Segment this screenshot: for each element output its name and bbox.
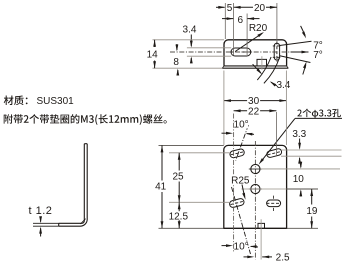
side view: bend tick <box>80 219 85 224</box>
dimension 20: dimension line with arrows <box>234 6 277 8</box>
dimension 22: right extension line <box>275 112 277 156</box>
dimension 30: dimension line <box>224 100 287 102</box>
dimension 5: outside arrow and line <box>216 6 225 8</box>
svg-text:19: 19 <box>306 206 318 217</box>
svg-text:10°: 10° <box>234 242 249 253</box>
label R20 <box>249 23 268 32</box>
front view: 10deg slanted line upper (through top-left slot) <box>236 125 249 161</box>
dimension 6: extension line at slot right cap <box>246 14 248 56</box>
dimension 19: bottom extension line right <box>287 227 318 229</box>
top view: swing arc outer <box>264 57 280 83</box>
dimension 6: outside arrows <box>222 18 233 20</box>
label 2x phi3.3 holes text (CJK) <box>297 110 301 117</box>
top view: horizontal slot center dashes <box>231 51 252 53</box>
top view: bracket plate outline (rounded top corners) <box>224 40 287 66</box>
label 14 <box>146 49 158 58</box>
top view: left end tick of flange <box>222 66 224 68</box>
top view: right end tick of flange <box>287 66 289 68</box>
front view: top-left arc slot <box>230 149 244 158</box>
front view: top-right arc slot <box>267 149 282 158</box>
dimension 3.4: slot width extension lines <box>187 47 231 49</box>
front view: bottom-left arc slot <box>230 199 244 208</box>
svg-text:8: 8 <box>173 57 179 68</box>
dimension 3.3: slot edge extension lines <box>281 149 342 151</box>
svg-text:3.4: 3.4 <box>183 24 197 35</box>
side view: L-profile inner contour <box>59 144 85 224</box>
dimension 3.4: outside arrows <box>190 35 192 47</box>
dimension 12.5: dimension line <box>178 202 180 228</box>
dimension 8: outside arrows at center line and bottom <box>176 44 178 50</box>
dimension 10: upper hole extension line <box>261 168 341 170</box>
label 10deg lower <box>235 242 248 251</box>
svg-text:5: 5 <box>227 3 233 14</box>
svg-text:10: 10 <box>293 174 305 185</box>
dimension 41: dimension line <box>161 145 163 180</box>
dimension t1.2: extension lines <box>33 222 59 224</box>
svg-text:10°: 10° <box>234 120 249 131</box>
dimension 10deg lower: arrow <box>222 245 231 247</box>
front view: tab center line extension (for 2.5 dim) <box>260 219 262 259</box>
leader of 2x phi3.3 holes: horizontal underline <box>295 117 342 119</box>
dimension 22: dimension line <box>234 110 277 112</box>
front view: right horizontal slot <box>267 200 281 207</box>
label 12.5 <box>168 211 189 220</box>
top view: upper arc arrow of tilt range <box>301 26 306 36</box>
front view: lower hole horizontal dash <box>249 188 262 190</box>
top view: 3.4 arc leader arrow <box>270 81 277 86</box>
top view: center line arrow to right (7deg fan axis) <box>302 51 309 54</box>
front view: 10deg slanted line lower (through bottom-left slot) <box>232 187 251 254</box>
top view: outer bottom edge of bent flange <box>222 67 288 69</box>
dimension 19: dimension line <box>311 189 313 205</box>
top view: 7deg lower tilt line <box>280 56 311 63</box>
dimension 25: extension lines <box>169 152 230 154</box>
front view: lower hole horizontal center line <box>241 188 286 190</box>
svg-text:t 1.2: t 1.2 <box>29 205 53 217</box>
dimension 41: extension lines <box>159 144 224 146</box>
top view: 7deg upper tilt line <box>280 41 312 45</box>
top view: vertical slot cap center dashes <box>273 45 281 47</box>
svg-text:12.5: 12.5 <box>169 211 189 222</box>
front view: right slot vertical center ticks <box>273 196 275 199</box>
svg-text:R20: R20 <box>249 23 268 34</box>
svg-text:3.3: 3.3 <box>292 129 306 140</box>
dimension 10: outside arrows <box>300 162 302 168</box>
dimension 2.5: arrows <box>244 256 252 258</box>
dimension t1.2: outside arrows <box>40 217 42 222</box>
front view: plate outline <box>224 145 287 228</box>
leader of 2x phi3.3 holes: diagonal with arrow to upper hole <box>261 118 295 161</box>
top view: swing arc inner (3.4 wide arc slot) <box>257 57 271 80</box>
top view: vertical slot <box>274 43 279 60</box>
front view: bottom tab <box>258 223 265 228</box>
svg-text:R25: R25 <box>231 175 250 186</box>
note line 2: accessory screws note (CJK) <box>4 114 13 123</box>
svg-text:7°: 7° <box>313 50 323 61</box>
svg-text:3.4: 3.4 <box>276 80 290 91</box>
side view: strip left end cap <box>58 223 60 226</box>
top view: tab center line <box>261 56 263 69</box>
top view: R20 leader line with arrow <box>235 33 262 51</box>
dimension 14: dimension line <box>154 40 156 47</box>
dimension 30/top-view link: left extension line <box>223 71 225 146</box>
front view: phi3.3 hole lower <box>251 184 260 193</box>
top view: fold line (bottom inner edge) <box>224 65 287 67</box>
top view: horizontal mounting slot <box>231 48 251 56</box>
label 20 <box>253 3 266 12</box>
svg-text:2.5: 2.5 <box>276 253 290 264</box>
dimension 5/20: shared extension line at slot left cap <box>233 3 235 55</box>
top view: lower arc arrow of tilt range <box>303 65 306 75</box>
svg-text:SUS301: SUS301 <box>37 96 75 107</box>
dimension 3.3: outside arrows <box>299 139 301 149</box>
dimension 10deg lower: arrow at slanted line <box>250 245 257 248</box>
svg-text:6: 6 <box>238 15 244 26</box>
dimension 25: dimension line <box>178 153 180 171</box>
svg-text:41: 41 <box>155 182 167 193</box>
dimension 14: top edge extension line <box>153 39 225 41</box>
dimension 20: extension line at vertical slot center <box>276 3 278 42</box>
svg-text:20: 20 <box>254 3 266 14</box>
front view: phi3.3 hole upper <box>251 164 260 173</box>
front view: upper hole horizontal dash <box>249 168 262 170</box>
label 10deg upper <box>234 119 248 128</box>
svg-text:22: 22 <box>248 106 260 117</box>
front view: R25 leader arrow into bottom-left slot <box>242 185 245 197</box>
svg-text:14: 14 <box>147 49 159 60</box>
top view: center tab (sensor boss) <box>257 59 267 66</box>
side view: strip top cap <box>84 143 87 145</box>
top view: vertical slot axis dash <box>276 42 278 62</box>
svg-text:25: 25 <box>172 172 184 183</box>
front view: slanted reference line through left slots (vertical) <box>233 114 235 253</box>
dimension 30/top-view link: right extension line <box>285 71 287 146</box>
dimension 10deg upper: arrows <box>222 132 231 134</box>
top view: horizontal center line (dash-dot) <box>170 51 290 53</box>
label R25 <box>230 175 251 184</box>
top view: arrow to inner arc <box>253 64 261 73</box>
dimension 14: bottom edge extension line <box>153 67 223 69</box>
dimension 5: extension line from plate left edge <box>224 3 226 39</box>
side view: L-profile outer contour <box>59 144 87 227</box>
note line 1: material SUS301 (CJK) <box>4 96 14 106</box>
front view: vertical center line (dash-dot) <box>254 141 256 260</box>
